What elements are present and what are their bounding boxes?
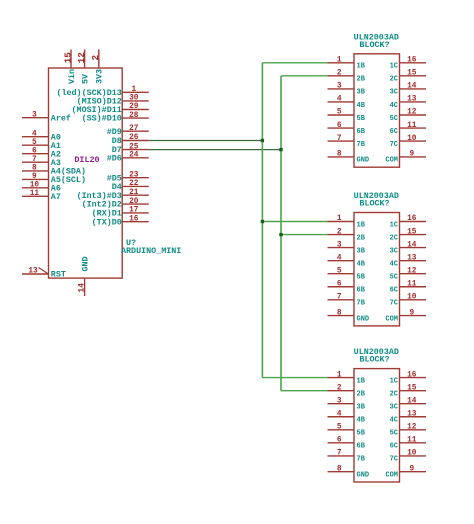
pin 13 4C (right, BLOCK? #1) bbox=[390, 96, 426, 110]
svg-text:1B: 1B bbox=[357, 63, 366, 71]
svg-text:6: 6 bbox=[337, 437, 342, 445]
svg-text:BLOCK?: BLOCK? bbox=[359, 355, 389, 365]
IC U? ARDUINO_MINI body bbox=[49, 68, 123, 278]
pin 2 3V3 (top, U?) bbox=[90, 50, 104, 85]
svg-text:COM: COM bbox=[385, 472, 398, 480]
pin 1 1B (left, BLOCK? #3) bbox=[328, 371, 366, 385]
svg-text:7C: 7C bbox=[390, 141, 398, 149]
svg-text:4B: 4B bbox=[357, 102, 366, 110]
svg-text:2B: 2B bbox=[357, 76, 366, 84]
svg-text:3V3: 3V3 bbox=[95, 69, 105, 84]
pin 4 A0 (left, U?) bbox=[22, 130, 61, 142]
svg-text:A7: A7 bbox=[51, 192, 61, 202]
svg-text:10: 10 bbox=[30, 182, 40, 190]
svg-text:5: 5 bbox=[337, 109, 342, 117]
pin 4 4B (left, BLOCK? #3) bbox=[328, 410, 366, 424]
junction net-D7 at BLOCK?#2 bbox=[279, 233, 282, 236]
pin 29 (MOSI)#D11 (right, U?) bbox=[72, 103, 149, 115]
pin 8 GND (left, BLOCK? #1) bbox=[328, 151, 370, 165]
svg-text:29: 29 bbox=[129, 103, 139, 111]
pin 15 Vin (top, U?) bbox=[62, 50, 76, 85]
svg-text:3B: 3B bbox=[357, 404, 366, 412]
IC BLOCK? #2 ULN2003AD body bbox=[354, 213, 400, 326]
pin 6 6B (left, BLOCK? #1) bbox=[328, 122, 366, 136]
svg-text:3C: 3C bbox=[390, 89, 398, 97]
value label ARDUINO_MINI bbox=[121, 246, 181, 256]
pin 8 GND (left, BLOCK? #3) bbox=[328, 465, 370, 479]
svg-text:2C: 2C bbox=[390, 390, 398, 398]
pin 9 COM (right, BLOCK? #2) bbox=[385, 309, 426, 323]
svg-text:16: 16 bbox=[407, 215, 417, 223]
svg-text:1B: 1B bbox=[357, 377, 366, 385]
pin 10 7C (right, BLOCK? #2) bbox=[390, 294, 426, 308]
svg-text:8: 8 bbox=[337, 151, 342, 159]
svg-text:30: 30 bbox=[129, 95, 139, 103]
name label BLOCK? #3 bbox=[359, 355, 389, 365]
svg-text:14: 14 bbox=[407, 83, 417, 91]
pin 11 6C (right, BLOCK? #2) bbox=[390, 280, 426, 294]
wire net-D7 branch to BLOCK?#1 pin 2 bbox=[281, 75, 328, 77]
pin 5 5B (left, BLOCK? #3) bbox=[328, 424, 366, 438]
IC BLOCK? #3 ULN2003AD body bbox=[354, 369, 400, 482]
svg-text:16: 16 bbox=[129, 215, 139, 223]
svg-text:7B: 7B bbox=[357, 456, 366, 464]
svg-text:15: 15 bbox=[62, 52, 73, 64]
svg-text:17: 17 bbox=[129, 207, 139, 215]
pin 15 2C (right, BLOCK? #1) bbox=[390, 70, 426, 84]
junction net-D7 at U? feed bbox=[279, 148, 282, 151]
pin 16 1C (right, BLOCK? #2) bbox=[390, 215, 426, 229]
svg-text:3: 3 bbox=[337, 83, 342, 91]
name label U? bbox=[126, 238, 136, 248]
pin 6 6B (left, BLOCK? #2) bbox=[328, 280, 366, 294]
svg-text:5B: 5B bbox=[357, 274, 366, 282]
svg-text:5: 5 bbox=[337, 424, 342, 432]
pin 3 3B (left, BLOCK? #2) bbox=[328, 241, 366, 255]
pin 14 3C (right, BLOCK? #3) bbox=[390, 397, 426, 411]
IC BLOCK? #1 ULN2003AD body bbox=[354, 54, 400, 167]
svg-text:4: 4 bbox=[32, 130, 37, 138]
svg-text:5: 5 bbox=[32, 139, 37, 147]
svg-text:22: 22 bbox=[129, 180, 139, 188]
svg-text:5C: 5C bbox=[390, 115, 398, 123]
svg-text:DIL20: DIL20 bbox=[74, 155, 99, 165]
pin 13 4C (right, BLOCK? #2) bbox=[390, 254, 426, 268]
pin 1 1B (left, BLOCK? #1) bbox=[328, 57, 366, 71]
svg-text:7B: 7B bbox=[357, 141, 366, 149]
pin 10 7C (right, BLOCK? #3) bbox=[390, 450, 426, 464]
svg-text:5C: 5C bbox=[390, 430, 398, 438]
svg-text:4B: 4B bbox=[357, 260, 366, 268]
pin 10 A6 (left, U?) bbox=[22, 182, 61, 194]
svg-text:Aref: Aref bbox=[51, 113, 71, 123]
wire net-D8 branch to BLOCK?#2 pin 1 bbox=[262, 221, 327, 223]
svg-text:11: 11 bbox=[407, 437, 417, 445]
svg-text:2C: 2C bbox=[390, 76, 398, 84]
svg-text:8: 8 bbox=[337, 309, 342, 317]
wire net-D7 horizontal from U? pin 25 bbox=[149, 149, 281, 151]
pin 27 #D9 (right, U?) bbox=[107, 125, 149, 137]
pin 9 A5(SCL) (left, U?) bbox=[22, 173, 86, 185]
pin 17 (RX)D1 (right, U?) bbox=[92, 207, 149, 219]
pin 14 3C (right, BLOCK? #1) bbox=[390, 83, 426, 97]
svg-text:4B: 4B bbox=[357, 417, 366, 425]
pin 28 (SS)#D10 (right, U?) bbox=[82, 112, 149, 124]
pin 14 GND (bottom, U?) bbox=[78, 256, 90, 296]
pin 12 5C (right, BLOCK? #1) bbox=[390, 109, 426, 123]
svg-text:6B: 6B bbox=[357, 287, 366, 295]
svg-text:GND: GND bbox=[357, 315, 370, 323]
svg-text:2: 2 bbox=[337, 228, 342, 236]
pin 11 6C (right, BLOCK? #3) bbox=[390, 437, 426, 451]
svg-text:5B: 5B bbox=[357, 430, 366, 438]
svg-text:1C: 1C bbox=[390, 63, 398, 71]
svg-text:1C: 1C bbox=[390, 377, 398, 385]
junction net-D8 at U? feed bbox=[261, 139, 264, 142]
pin 26 D8 (right, U?) bbox=[112, 134, 149, 146]
svg-text:BLOCK?: BLOCK? bbox=[359, 199, 389, 209]
pin 9 COM (right, BLOCK? #3) bbox=[385, 465, 426, 479]
svg-text:2: 2 bbox=[337, 70, 342, 78]
pin 24 #D6 (right, U?) bbox=[107, 152, 149, 164]
pin 3 Aref (left, U?) bbox=[22, 111, 71, 123]
svg-text:7: 7 bbox=[337, 294, 342, 302]
svg-text:5C: 5C bbox=[390, 274, 398, 282]
pin 14 3C (right, BLOCK? #2) bbox=[390, 241, 426, 255]
svg-text:7: 7 bbox=[32, 156, 37, 164]
svg-text:3C: 3C bbox=[390, 404, 398, 412]
svg-text:12: 12 bbox=[407, 109, 417, 117]
svg-text:3B: 3B bbox=[357, 247, 366, 255]
svg-text:8: 8 bbox=[337, 465, 342, 473]
svg-text:7: 7 bbox=[337, 450, 342, 458]
svg-text:7: 7 bbox=[337, 135, 342, 143]
pin 8 GND (left, BLOCK? #2) bbox=[328, 309, 370, 323]
svg-text:11: 11 bbox=[407, 122, 417, 130]
pin 12 5C (right, BLOCK? #2) bbox=[390, 267, 426, 281]
pin 6 6B (left, BLOCK? #3) bbox=[328, 437, 366, 451]
pin 1 1B (left, BLOCK? #2) bbox=[328, 215, 366, 229]
pin 5 5B (left, BLOCK? #2) bbox=[328, 267, 366, 281]
svg-text:6: 6 bbox=[337, 122, 342, 130]
wire net-D8 branch to BLOCK?#1 pin 1 bbox=[262, 62, 327, 64]
pin 7 7B (left, BLOCK? #3) bbox=[328, 450, 366, 464]
svg-text:4C: 4C bbox=[390, 260, 398, 268]
svg-text:ARDUINO_MINI: ARDUINO_MINI bbox=[121, 246, 181, 256]
pin 21 (Int3)#D3 (right, U?) bbox=[77, 189, 149, 201]
svg-text:GND: GND bbox=[81, 256, 91, 271]
svg-text:1: 1 bbox=[337, 215, 342, 223]
svg-text:25: 25 bbox=[129, 143, 139, 151]
svg-text:15: 15 bbox=[407, 70, 417, 78]
svg-text:13: 13 bbox=[407, 410, 417, 418]
pin 3 3B (left, BLOCK? #3) bbox=[328, 397, 366, 411]
svg-text:5V: 5V bbox=[80, 73, 90, 84]
pin 5 A1 (left, U?) bbox=[22, 139, 61, 151]
svg-text:28: 28 bbox=[129, 112, 139, 120]
pin 11 6C (right, BLOCK? #1) bbox=[390, 122, 426, 136]
pin 13 RST (left, U?) bbox=[22, 268, 66, 280]
wire net-D8 horizontal from U? pin 26 bbox=[149, 140, 263, 142]
svg-text:14: 14 bbox=[78, 283, 86, 293]
svg-text:7B: 7B bbox=[357, 300, 366, 308]
pin 15 2C (right, BLOCK? #3) bbox=[390, 384, 426, 398]
name label BLOCK? #2 bbox=[359, 199, 389, 209]
pin 12 5V (top, U?) bbox=[76, 50, 90, 85]
svg-text:#D6: #D6 bbox=[107, 153, 122, 163]
svg-text:3B: 3B bbox=[357, 89, 366, 97]
svg-text:8: 8 bbox=[32, 165, 37, 173]
svg-text:5B: 5B bbox=[357, 115, 366, 123]
svg-text:6B: 6B bbox=[357, 443, 366, 451]
pin 12 5C (right, BLOCK? #3) bbox=[390, 424, 426, 438]
svg-text:13: 13 bbox=[407, 96, 417, 104]
pin 3 3B (left, BLOCK? #1) bbox=[328, 83, 366, 97]
value label ULN2003AD #2 bbox=[354, 191, 399, 201]
svg-text:1: 1 bbox=[131, 86, 136, 94]
pin 5 5B (left, BLOCK? #1) bbox=[328, 109, 366, 123]
svg-text:6C: 6C bbox=[390, 443, 398, 451]
svg-text:10: 10 bbox=[407, 135, 417, 143]
value label DIL20 (U?) bbox=[74, 155, 99, 165]
wire net-D7 branch to BLOCK?#3 pin 2 bbox=[281, 390, 328, 392]
svg-text:15: 15 bbox=[407, 384, 417, 392]
svg-text:24: 24 bbox=[129, 152, 139, 160]
svg-text:7C: 7C bbox=[390, 300, 398, 308]
svg-text:2: 2 bbox=[90, 55, 101, 61]
svg-text:21: 21 bbox=[129, 189, 139, 197]
pin 23 #D5 (right, U?) bbox=[107, 171, 149, 183]
svg-text:(SS)#D10: (SS)#D10 bbox=[82, 114, 122, 124]
pin 2 2B (left, BLOCK? #1) bbox=[328, 70, 366, 84]
svg-text:12: 12 bbox=[76, 52, 87, 64]
pin 25 D7 (right, U?) bbox=[112, 143, 149, 155]
pin 11 A7 (left, U?) bbox=[22, 190, 61, 202]
svg-text:16: 16 bbox=[407, 57, 417, 65]
pin 1 (led)(SCK)D13 (right, U?) bbox=[56, 86, 148, 98]
svg-text:13: 13 bbox=[407, 254, 417, 262]
svg-text:2B: 2B bbox=[357, 390, 366, 398]
svg-text:COM: COM bbox=[385, 157, 398, 165]
pin 7 7B (left, BLOCK? #2) bbox=[328, 294, 366, 308]
svg-text:10: 10 bbox=[407, 294, 417, 302]
svg-text:26: 26 bbox=[129, 134, 139, 142]
pin 2 2B (left, BLOCK? #3) bbox=[328, 384, 366, 398]
svg-text:1C: 1C bbox=[390, 221, 398, 229]
svg-text:Vin: Vin bbox=[67, 69, 77, 84]
svg-text:6: 6 bbox=[337, 280, 342, 288]
svg-text:12: 12 bbox=[407, 424, 417, 432]
svg-text:23: 23 bbox=[129, 171, 139, 179]
svg-text:3: 3 bbox=[337, 241, 342, 249]
svg-text:GND: GND bbox=[357, 157, 370, 165]
wire net-D8 branch to BLOCK?#3 pin 1 bbox=[262, 377, 327, 379]
svg-text:3: 3 bbox=[32, 111, 37, 119]
value label ULN2003AD #1 bbox=[354, 32, 399, 42]
svg-text:4C: 4C bbox=[390, 102, 398, 110]
svg-text:9: 9 bbox=[32, 173, 37, 181]
svg-text:3C: 3C bbox=[390, 247, 398, 255]
junction net-D8 at BLOCK?#2 bbox=[261, 220, 264, 223]
pin 20 (Int2)D2 (right, U?) bbox=[82, 198, 149, 210]
pin 30 (MISO)D12 (right, U?) bbox=[77, 95, 149, 107]
pin 7 7B (left, BLOCK? #1) bbox=[328, 135, 366, 149]
svg-text:5: 5 bbox=[337, 267, 342, 275]
svg-text:14: 14 bbox=[407, 241, 417, 249]
svg-text:COM: COM bbox=[385, 315, 398, 323]
svg-text:11: 11 bbox=[407, 280, 417, 288]
pin 6 A2 (left, U?) bbox=[22, 147, 61, 159]
svg-text:11: 11 bbox=[30, 190, 40, 198]
svg-text:6C: 6C bbox=[390, 287, 398, 295]
svg-text:2: 2 bbox=[337, 384, 342, 392]
svg-text:1B: 1B bbox=[357, 221, 366, 229]
wire net-D7 vertical bus bbox=[280, 76, 282, 391]
svg-text:16: 16 bbox=[407, 371, 417, 379]
pin 4 4B (left, BLOCK? #2) bbox=[328, 254, 366, 268]
svg-text:6B: 6B bbox=[357, 128, 366, 136]
svg-text:27: 27 bbox=[129, 125, 139, 133]
svg-text:RST: RST bbox=[51, 270, 66, 280]
svg-text:3: 3 bbox=[337, 397, 342, 405]
svg-text:9: 9 bbox=[409, 151, 414, 159]
svg-text:2C: 2C bbox=[390, 234, 398, 242]
svg-text:2B: 2B bbox=[357, 234, 366, 242]
svg-text:14: 14 bbox=[407, 397, 417, 405]
pin 8 A4(SDA) (left, U?) bbox=[22, 165, 86, 177]
pin 7 A3 (left, U?) bbox=[22, 156, 61, 168]
svg-text:20: 20 bbox=[129, 198, 139, 206]
pin 16 1C (right, BLOCK? #3) bbox=[390, 371, 426, 385]
svg-text:7C: 7C bbox=[390, 456, 398, 464]
svg-text:10: 10 bbox=[407, 450, 417, 458]
svg-text:(TX)D0: (TX)D0 bbox=[92, 217, 122, 227]
pin 15 2C (right, BLOCK? #2) bbox=[390, 228, 426, 242]
wire net-D7 branch to BLOCK?#2 pin 2 bbox=[281, 234, 328, 236]
pin 13 4C (right, BLOCK? #3) bbox=[390, 410, 426, 424]
svg-text:9: 9 bbox=[409, 309, 414, 317]
pin 22 D4 (right, U?) bbox=[112, 180, 149, 192]
svg-text:13: 13 bbox=[28, 268, 38, 276]
wire net-D8 vertical bus bbox=[261, 63, 263, 378]
pin 10 7C (right, BLOCK? #1) bbox=[390, 135, 426, 149]
svg-text:1: 1 bbox=[337, 371, 342, 379]
svg-text:6: 6 bbox=[32, 147, 37, 155]
svg-text:4: 4 bbox=[337, 96, 342, 104]
value label ULN2003AD #3 bbox=[354, 347, 399, 357]
svg-text:15: 15 bbox=[407, 228, 417, 236]
pin 4 4B (left, BLOCK? #1) bbox=[328, 96, 366, 110]
svg-text:4: 4 bbox=[337, 254, 342, 262]
svg-text:12: 12 bbox=[407, 267, 417, 275]
svg-text:BLOCK?: BLOCK? bbox=[359, 40, 389, 50]
svg-text:GND: GND bbox=[357, 472, 370, 480]
svg-text:1: 1 bbox=[337, 57, 342, 65]
svg-text:6C: 6C bbox=[390, 128, 398, 136]
svg-text:4C: 4C bbox=[390, 417, 398, 425]
pin 2 2B (left, BLOCK? #2) bbox=[328, 228, 366, 242]
svg-text:4: 4 bbox=[337, 410, 342, 418]
pin 9 COM (right, BLOCK? #1) bbox=[385, 151, 426, 165]
pin 16 (TX)D0 (right, U?) bbox=[92, 215, 149, 227]
pin 16 1C (right, BLOCK? #1) bbox=[390, 57, 426, 71]
svg-text:9: 9 bbox=[409, 465, 414, 473]
name label BLOCK? #1 bbox=[359, 40, 389, 50]
